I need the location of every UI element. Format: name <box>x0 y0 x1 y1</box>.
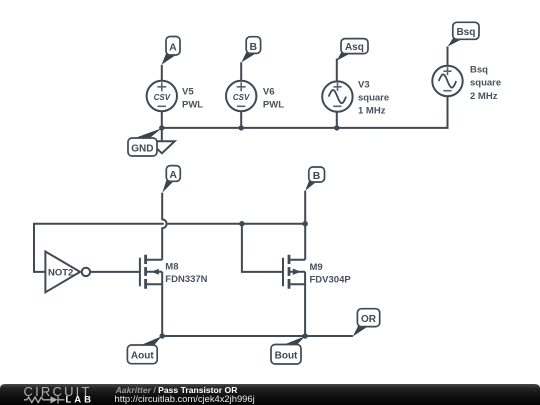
svg-text:PWL: PWL <box>263 99 284 110</box>
svg-text:FDV304P: FDV304P <box>310 274 352 285</box>
svg-text:V5: V5 <box>182 86 194 97</box>
svg-text:B: B <box>313 170 321 182</box>
svg-text:square: square <box>470 78 501 89</box>
svg-text:Asq: Asq <box>345 42 364 53</box>
svg-text:Bout: Bout <box>275 351 298 362</box>
svg-text:CSV: CSV <box>154 93 171 102</box>
svg-text:CSV: CSV <box>233 93 250 102</box>
svg-text:V3: V3 <box>358 79 370 90</box>
svg-text:Bsq: Bsq <box>470 65 488 76</box>
svg-text:square: square <box>358 92 389 103</box>
svg-text:http://circuitlab.com/cjek4x2j: http://circuitlab.com/cjek4x2jh996j <box>115 393 255 404</box>
svg-text:OR: OR <box>361 314 377 325</box>
svg-text:M8: M8 <box>165 262 178 273</box>
svg-text:GND: GND <box>131 143 153 154</box>
svg-text:FDN337N: FDN337N <box>165 274 207 285</box>
svg-text:A: A <box>169 42 177 54</box>
svg-text:1 MHz: 1 MHz <box>358 105 386 116</box>
svg-text:A: A <box>169 169 177 181</box>
svg-text:V6: V6 <box>263 86 275 97</box>
svg-text:NOT2: NOT2 <box>48 267 73 278</box>
svg-text:Bsq: Bsq <box>456 27 475 38</box>
svg-text:2 MHz: 2 MHz <box>470 91 498 102</box>
svg-text:M9: M9 <box>310 262 323 273</box>
svg-text:B: B <box>250 41 258 53</box>
svg-text:PWL: PWL <box>182 99 203 110</box>
svg-text:LAB: LAB <box>66 395 95 405</box>
svg-text:Aout: Aout <box>131 350 154 361</box>
